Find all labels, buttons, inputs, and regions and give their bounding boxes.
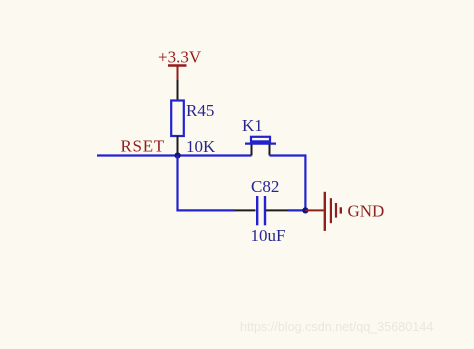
resistor R45 pin 2 (bottom) <box>177 136 179 156</box>
svg-text:+3.3V: +3.3V <box>158 48 202 67</box>
svg-text:R45: R45 <box>186 101 214 120</box>
capacitor C82 plates <box>257 196 265 225</box>
wire from K1 to GND node (right vertical) <box>270 156 306 211</box>
wire from C82 to GND node <box>288 209 305 211</box>
capacitor C82 pin 2 (right) <box>266 209 288 211</box>
push button K1 bridge bar <box>245 143 276 145</box>
svg-text:K1: K1 <box>242 116 263 135</box>
svg-text:RSET: RSET <box>121 137 165 156</box>
svg-text:10uF: 10uF <box>251 226 286 245</box>
svg-text:C82: C82 <box>251 177 279 196</box>
resistor R45 pin 1 (top) <box>177 80 179 100</box>
junction node at C82/GND <box>302 207 308 213</box>
svg-text:https://blog.csdn.net/qq_35680: https://blog.csdn.net/qq_35680144 <box>240 320 433 334</box>
push button K1 cap <box>251 137 270 142</box>
junction node at resistor/RSET <box>175 152 181 158</box>
capacitor C82 pin 1 (left) <box>235 209 256 211</box>
wire from RSET node down and right to C82 <box>178 156 235 211</box>
svg-text:10K: 10K <box>186 137 216 156</box>
push button K1 pin 2 stub <box>269 145 271 156</box>
svg-text:GND: GND <box>348 202 385 221</box>
power port +3.3V bar symbol <box>168 66 187 81</box>
ground symbol stem <box>305 209 323 211</box>
resistor R45 body <box>171 101 184 137</box>
ground symbol bars <box>325 192 341 231</box>
push button K1 pin 1 stub <box>251 145 253 156</box>
wire RSET horizontal <box>97 154 252 156</box>
